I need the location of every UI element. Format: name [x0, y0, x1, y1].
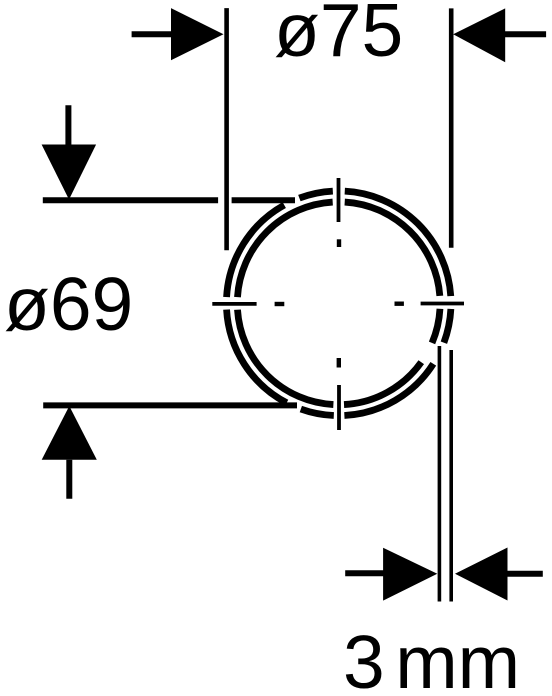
center dash above center [337, 239, 341, 247]
3mm arrowhead left (pointing right) [383, 548, 437, 601]
ø75 extension line right [449, 8, 454, 247]
outer circle arc segment 4 [227, 205, 285, 297]
svg-text:3: 3 [343, 620, 385, 696]
inner circle arc segment 1 [344, 362, 421, 404]
ø75 dimension line left tail [132, 31, 172, 37]
inner circle arc segment 3 [237, 202, 332, 297]
outer circle arc segment 5 [299, 191, 332, 198]
center dash right of center [395, 302, 404, 306]
3mm dimension line left tail [345, 570, 384, 576]
ø69 arrowhead bottom (pointing up) [42, 406, 97, 460]
outer circle arc segment 3 [227, 310, 287, 403]
centerline tick top [337, 178, 341, 222]
centerline tick left [212, 302, 256, 306]
wall extension line left (from inner circle) [438, 346, 442, 602]
ø75 extension line left [224, 8, 229, 250]
centerline tick right [421, 302, 464, 306]
inner circle arc segment 2 [238, 310, 334, 405]
ø69 top arrow tail [65, 105, 71, 146]
ø75 dimension line right tail [505, 31, 546, 37]
ø75 arrowhead right (pointing left) [453, 8, 505, 62]
inner circle arc segment 5 [432, 309, 440, 343]
centerline tick bottom [337, 385, 341, 430]
ø75 arrowhead left (pointing right) [171, 8, 224, 60]
wall extension line right (from outer circle) [449, 350, 453, 602]
outer circle arc segment 6 [345, 191, 451, 296]
outer circle arc segment 1 [344, 364, 433, 416]
svg-text:ø69: ø69 [4, 262, 133, 346]
svg-text:mm: mm [395, 620, 520, 696]
ø69 dimension line bottom [43, 402, 297, 408]
svg-text:ø75: ø75 [274, 0, 403, 72]
ø69 bottom arrow tail [66, 460, 72, 499]
ø69 dimension line top, left part [43, 197, 218, 203]
3mm arrowhead right (pointing left) [455, 548, 508, 601]
center dash below center [337, 358, 341, 368]
ø69 dimension line top, right part [232, 197, 295, 203]
center dash left of center [275, 302, 285, 306]
ø69 arrowhead top (pointing down) [42, 145, 97, 200]
inner circle arc segment 4 [345, 202, 440, 296]
outer circle arc segment 7 [444, 309, 451, 343]
outer circle arc segment 2 [301, 409, 334, 415]
3mm dimension line right tail [507, 571, 543, 577]
